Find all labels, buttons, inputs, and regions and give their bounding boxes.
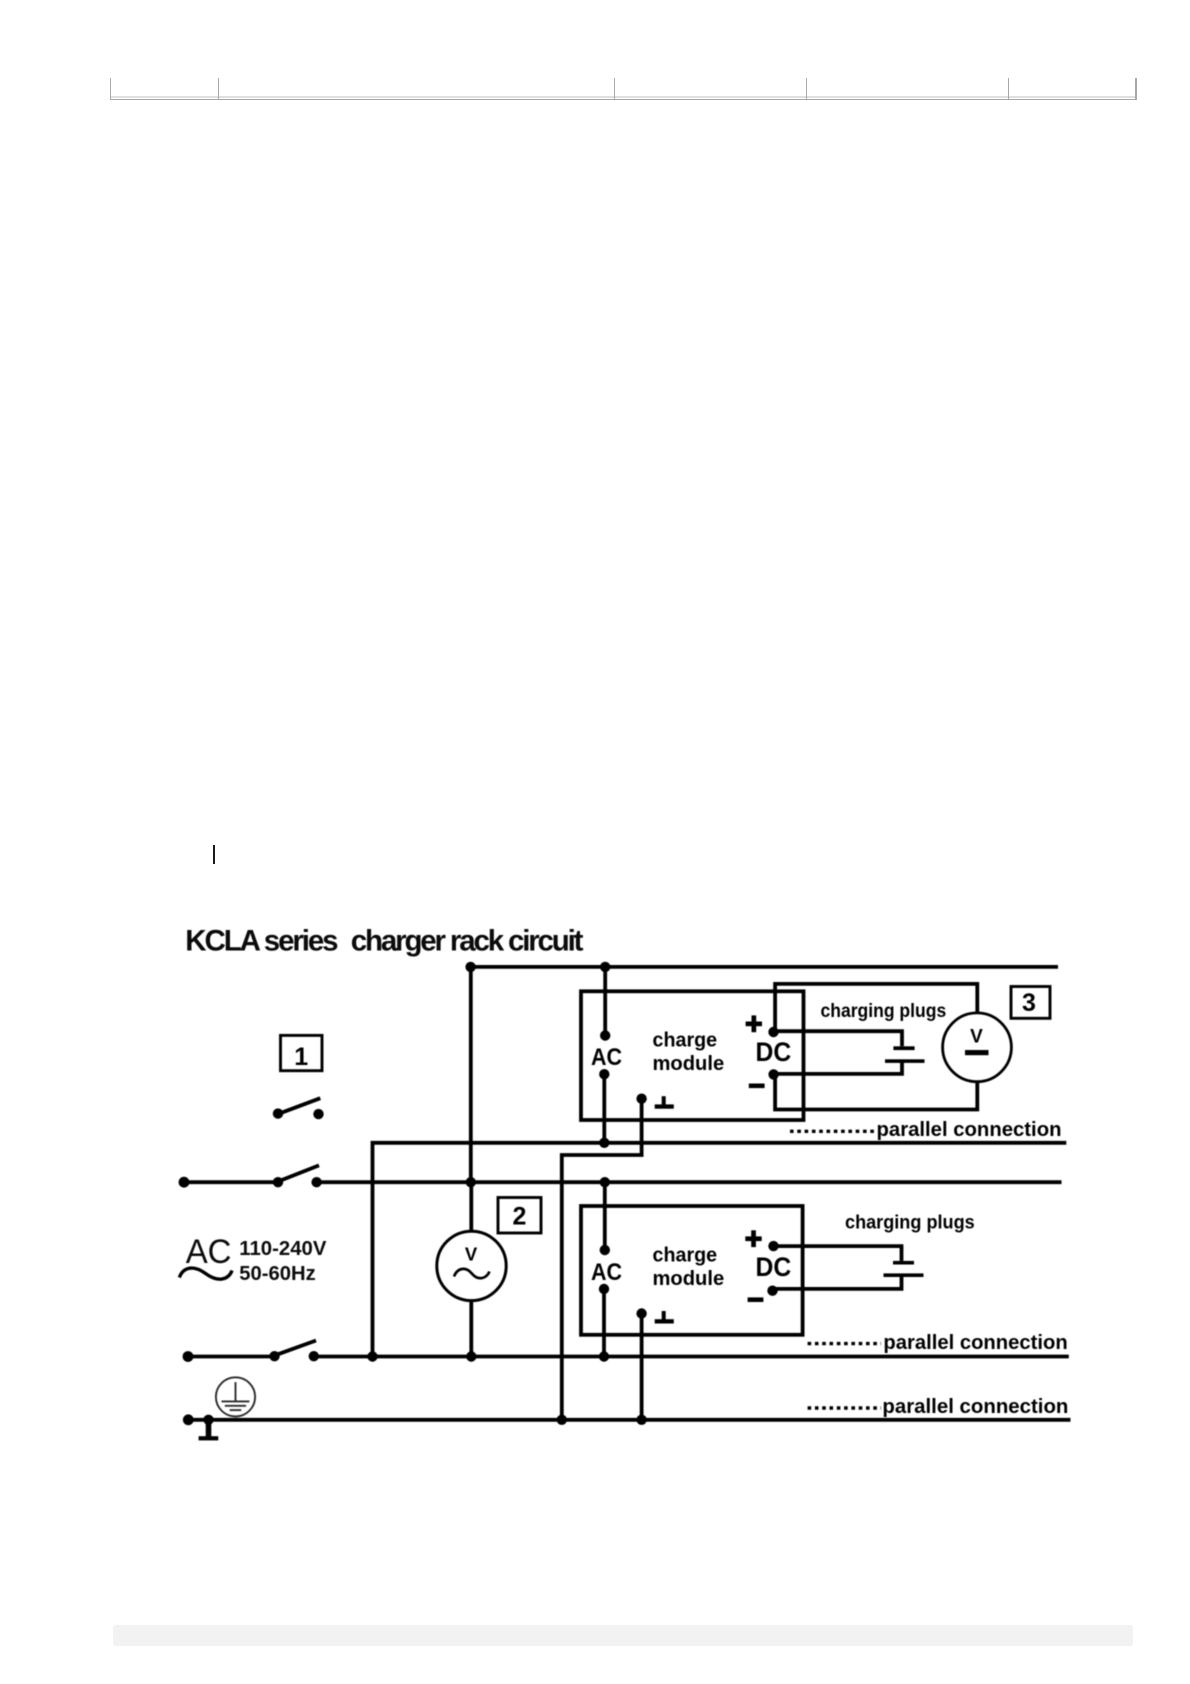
- wire voltmeter U3 loop top: [775, 984, 977, 1032]
- label box 3: [1011, 987, 1050, 1019]
- charge module U1 box: [581, 991, 804, 1120]
- node dot ground marker: [203, 1415, 213, 1425]
- svg-text:module: module: [653, 1268, 725, 1290]
- wire live riser to voltmeter U2: [469, 1182, 473, 1231]
- ground pin symbol module2: [655, 1311, 674, 1324]
- protective earth circle symbol: [216, 1377, 255, 1416]
- wire top live bus: [471, 965, 1058, 969]
- ground pin symbol module1: [655, 1096, 674, 1109]
- earth stake marker at ground bus: [199, 1420, 219, 1441]
- charge module U4 box: [581, 1206, 803, 1335]
- wire module2 AC bottom to neutral bus: [602, 1289, 606, 1357]
- svg-text:charging plugs: charging plugs: [821, 1000, 947, 1022]
- svg-text:charging plugs: charging plugs: [845, 1212, 975, 1234]
- svg-text:parallel connection: parallel connection: [877, 1118, 1062, 1141]
- node dot live bus riser junction: [466, 1177, 476, 1187]
- svg-text:DC: DC: [756, 1037, 792, 1067]
- wire module2 ground run: [640, 1314, 644, 1420]
- wire module2 plus to battery B2: [774, 1246, 902, 1261]
- wire module2 AC top feed: [603, 1182, 607, 1250]
- switch S1 (floating, item 1): [273, 1098, 324, 1119]
- svg-text:AC: AC: [591, 1259, 622, 1286]
- svg-text:2: 2: [513, 1202, 527, 1230]
- minus sign module1: [749, 1084, 765, 1089]
- battery B1 plates: [885, 1046, 925, 1063]
- wire live bus right of switch S2: [317, 1180, 1062, 1184]
- plus sign module1: [746, 1015, 762, 1032]
- terminal dot module1 plus: [768, 1027, 778, 1037]
- node dot ground bus module2 tap: [636, 1415, 646, 1425]
- wire voltmeter U3 loop bottom: [775, 1074, 977, 1109]
- svg-text:AC: AC: [591, 1044, 622, 1071]
- wire battery B1 to module1 minus: [774, 1061, 902, 1074]
- minus sign module2: [748, 1297, 764, 1302]
- voltmeter U3 (DC, item 3): [943, 1013, 1012, 1082]
- dotted leader 2: [808, 1342, 881, 1345]
- node dot top bus module1 tap: [600, 962, 610, 972]
- svg-text:V: V: [465, 1244, 478, 1265]
- node dot top bus left: [465, 962, 475, 972]
- label box 1: [281, 1035, 323, 1070]
- terminal dot module1 minus: [768, 1069, 778, 1079]
- wire module1 ground run: [562, 1099, 642, 1420]
- node dot live bus module2 tap: [600, 1177, 610, 1187]
- wire main vertical live riser: [469, 967, 473, 1182]
- wire module1 plus to battery B1: [774, 1031, 903, 1046]
- svg-text:3: 3: [1022, 989, 1036, 1017]
- svg-text:charge: charge: [653, 1245, 718, 1267]
- node dot neutral bus drop: [367, 1351, 377, 1361]
- terminal dot live input: [179, 1177, 190, 1188]
- svg-text:AC: AC: [186, 1233, 232, 1271]
- terminal dot neutral input: [183, 1351, 194, 1362]
- wire live bus left of switch S2: [184, 1180, 278, 1184]
- node dot neutral bus module2 tap: [599, 1351, 609, 1361]
- AC source label: [186, 1233, 327, 1285]
- terminal dot module1 AC bottom: [599, 1069, 609, 1079]
- header table tick 2: [218, 78, 220, 99]
- svg-text:1: 1: [294, 1043, 308, 1071]
- text cursor mark: [213, 845, 215, 864]
- svg-text:V: V: [970, 1026, 983, 1047]
- wire ground bus: [188, 1418, 1070, 1422]
- terminal dot ground input: [183, 1414, 194, 1425]
- node dot ground bus module1 tap: [557, 1415, 567, 1425]
- header table tick 3: [614, 78, 616, 99]
- svg-text:parallel connection: parallel connection: [882, 1395, 1068, 1418]
- wire neutral bus right of switch S3: [314, 1355, 1069, 1359]
- label box 2: [498, 1198, 541, 1234]
- AC source sine symbol: [179, 1268, 232, 1279]
- svg-text:parallel connection: parallel connection: [883, 1331, 1067, 1354]
- header table tick 1: [110, 78, 112, 99]
- page bottom grey bar: [113, 1625, 1133, 1646]
- svg-text:110-240V: 110-240V: [239, 1237, 326, 1260]
- voltmeter U2 (AC, item 2): [437, 1231, 506, 1300]
- node dot parallel bus module1 tap: [599, 1138, 609, 1148]
- wire module1 AC bottom to parallel bus 1: [602, 1074, 606, 1143]
- terminal dot module2 ground: [636, 1308, 646, 1318]
- module2 name: [653, 1245, 725, 1291]
- svg-text:DC: DC: [756, 1252, 792, 1282]
- terminal dot module2 AC top: [600, 1245, 610, 1255]
- header table bottom rule: [110, 99, 1137, 101]
- terminal dot module2 minus: [767, 1286, 777, 1296]
- node dot neutral bus voltmeter tap: [466, 1351, 476, 1361]
- dotted leader 3: [808, 1406, 881, 1409]
- header table tick 4: [806, 78, 808, 99]
- svg-text:module: module: [653, 1053, 725, 1075]
- switch S3 (neutral): [269, 1341, 319, 1362]
- wire parallel bus 1 with left drop: [373, 1143, 1067, 1357]
- battery B2 plates: [884, 1261, 924, 1277]
- terminal dot module1 AC top: [600, 1030, 610, 1040]
- terminal dot module2 plus: [768, 1241, 778, 1251]
- svg-text:charge: charge: [653, 1030, 718, 1052]
- plus sign module2: [745, 1230, 761, 1247]
- header table tick 5: [1008, 78, 1010, 99]
- wire module1 AC top feed: [603, 967, 607, 1036]
- wire battery B2 to module2 minus: [773, 1275, 902, 1289]
- wire neutral bus left of switch S3: [188, 1355, 275, 1359]
- module1 name: [653, 1030, 725, 1075]
- header table tick right end: [1135, 78, 1137, 99]
- svg-text:50-60Hz: 50-60Hz: [239, 1262, 315, 1285]
- terminal dot module2 AC bottom: [599, 1284, 609, 1294]
- wire voltmeter U2 to neutral bus: [469, 1301, 473, 1357]
- dotted leader 1: [790, 1130, 874, 1133]
- terminal dot module1 ground: [636, 1094, 646, 1104]
- header table cell light rule: [110, 96, 1137, 97]
- switch S2 (live): [273, 1165, 322, 1187]
